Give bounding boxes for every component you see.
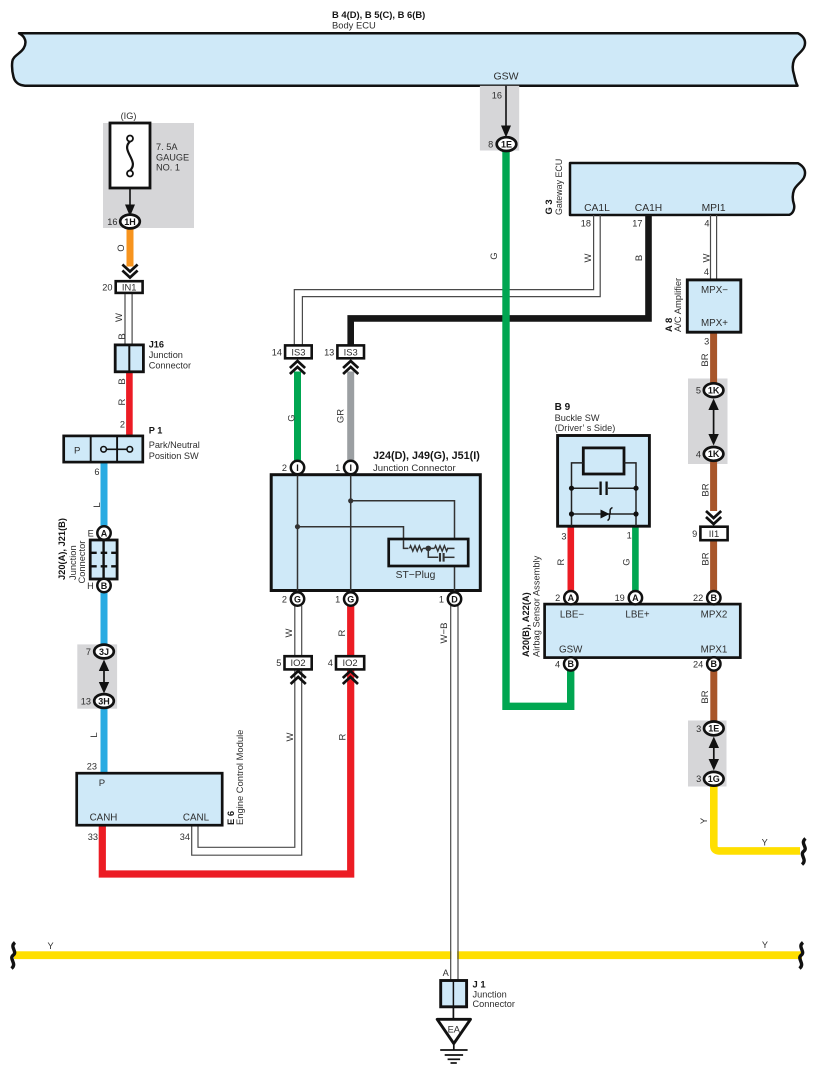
wire L 3H to E6 pin23 [101, 707, 108, 773]
svg-text:A: A [632, 593, 639, 603]
svg-text:Engine Control Module: Engine Control Module [234, 730, 245, 825]
resistor ST-Plug right [435, 546, 448, 551]
svg-text:J 1: J 1 [473, 978, 486, 989]
svg-text:IO2: IO2 [343, 657, 358, 668]
chevron IS3 13 [343, 361, 358, 374]
svg-text:W−B: W−B [439, 623, 450, 644]
connector ring G1 [335, 592, 357, 605]
svg-text:A: A [443, 968, 450, 978]
wire BR MPX+ to 1K [710, 332, 717, 384]
wire BR MPX1 pin24 to 1E [710, 670, 717, 723]
svg-text:6: 6 [94, 467, 99, 477]
wire internal I1 to D [348, 498, 454, 592]
svg-text:MPX+: MPX+ [701, 318, 728, 329]
svg-text:R: R [117, 398, 128, 405]
wire internal I2-G2 [297, 475, 299, 593]
arrow 1K-1K [708, 399, 718, 446]
svg-text:P 1: P 1 [149, 426, 163, 436]
svg-text:1: 1 [335, 463, 340, 473]
ground EA [437, 1019, 470, 1063]
svg-text:22: 22 [693, 593, 703, 603]
svg-text:1H: 1H [124, 217, 136, 227]
svg-text:4: 4 [704, 219, 709, 229]
svg-text:Connector: Connector [149, 360, 191, 370]
connector ring B pin22 [693, 591, 721, 604]
svg-text:Airbag Sensor Assembly: Airbag Sensor Assembly [531, 555, 541, 657]
svg-text:J20(A), J21(B): J20(A), J21(B) [57, 518, 67, 580]
shading GSW drop [480, 86, 519, 151]
connector ring I2 [282, 461, 304, 474]
svg-text:2: 2 [120, 420, 125, 430]
svg-text:E: E [88, 528, 94, 538]
shading 1K-1K [688, 379, 728, 465]
svg-text:G: G [347, 594, 354, 604]
svg-text:3: 3 [696, 774, 701, 784]
svg-text:13: 13 [324, 347, 334, 357]
svg-text:B: B [634, 255, 645, 261]
svg-text:A20(B), A22(A): A20(B), A22(A) [521, 592, 531, 657]
svg-text:23: 23 [87, 762, 97, 772]
svg-text:IO2: IO2 [291, 657, 306, 668]
wire W CANL loop to IO2-5 [192, 606, 302, 855]
connector ring A pin19 [615, 591, 643, 604]
arrow 1E-1G [709, 737, 719, 771]
svg-text:B 4(D), B 5(C), B 6(B): B 4(D), B 5(C), B 6(B) [332, 9, 425, 20]
svg-text:5: 5 [276, 658, 281, 668]
chevron orange to IN1 [122, 265, 137, 278]
svg-text:4: 4 [704, 267, 709, 277]
svg-text:7: 7 [86, 647, 91, 657]
wire B CA1H to IS3 [351, 215, 649, 346]
connector II1 [692, 527, 727, 541]
svg-text:I: I [296, 463, 299, 473]
connector ring A J20 [88, 526, 111, 539]
svg-text:BR: BR [700, 353, 711, 366]
svg-text:G: G [489, 252, 500, 259]
wire internal I1-G1 [350, 475, 352, 593]
svg-text:G: G [286, 414, 297, 421]
svg-text:1G: 1G [708, 774, 720, 784]
wire G GSW long (1E to airbag GSW) [506, 151, 571, 706]
wire internal B9 [572, 463, 637, 526]
svg-text:Connector: Connector [77, 541, 87, 584]
svg-text:D: D [451, 594, 458, 604]
svg-text:3J: 3J [99, 647, 109, 657]
junction connector J1 [441, 981, 467, 1007]
ECU box E6 Engine Control Module [77, 773, 223, 825]
svg-text:LBE−: LBE− [560, 609, 585, 620]
svg-text:5: 5 [696, 386, 701, 396]
amplifier box A8 A/C Amplifier [687, 280, 741, 332]
switch P1 Park/Neutral Position SW [64, 436, 143, 462]
wire internal I2 to ST-Plug [295, 524, 404, 540]
svg-text:4: 4 [696, 449, 701, 459]
connector IN1 [102, 281, 142, 293]
svg-text:P: P [99, 778, 105, 789]
svg-text:R: R [556, 558, 567, 565]
svg-text:MPX1: MPX1 [701, 644, 728, 655]
connector 1H [107, 215, 140, 229]
svg-text:W: W [583, 253, 594, 262]
svg-text:1E: 1E [708, 724, 719, 734]
wire W MPI1 to MPX- [711, 215, 717, 280]
connector 1G 3 [696, 772, 724, 786]
svg-text:Junction: Junction [149, 350, 183, 360]
wire L junction B to 3J [101, 591, 108, 646]
connector ring B pin24 [693, 657, 721, 670]
svg-text:W: W [285, 732, 296, 741]
svg-text:GSW: GSW [559, 644, 583, 655]
svg-text:J16: J16 [149, 339, 164, 349]
tear mark bottom-left [12, 943, 16, 969]
ECU box B Body ECU [12, 33, 805, 85]
svg-text:16: 16 [492, 90, 502, 100]
connector 3J [86, 645, 114, 659]
svg-text:R: R [337, 733, 348, 740]
shading 3J-3H [77, 644, 117, 708]
shading fuse block [103, 123, 194, 228]
svg-text:Body ECU: Body ECU [332, 20, 376, 31]
svg-text:CANL: CANL [183, 812, 210, 823]
svg-text:Junction Connector: Junction Connector [373, 463, 456, 474]
svg-text:3: 3 [561, 531, 566, 541]
svg-text:3H: 3H [98, 696, 110, 706]
switch B9 Buckle SW [558, 436, 650, 527]
svg-text:(IG): (IG) [121, 111, 137, 121]
svg-text:MPI1: MPI1 [702, 203, 726, 214]
connector ring D1 [439, 592, 461, 605]
svg-text:17: 17 [632, 219, 642, 229]
svg-text:GAUGE: GAUGE [156, 153, 189, 163]
svg-text:Position SW: Position SW [149, 451, 199, 461]
wire internal ST-Plug leads [404, 540, 455, 557]
svg-text:IS3: IS3 [291, 346, 305, 357]
switch body B9 [583, 448, 624, 474]
wire BR II1 to MPX2 pin22 [710, 540, 717, 592]
svg-text:2: 2 [282, 594, 287, 604]
svg-text:B: B [101, 581, 108, 591]
svg-text:9: 9 [692, 529, 697, 539]
wire R buckle to airbag pin2 [567, 526, 574, 592]
chevron IO2 5 [291, 671, 306, 684]
svg-text:B 9: B 9 [555, 402, 571, 413]
svg-text:B: B [711, 593, 718, 603]
node ST-Plug junction [426, 546, 432, 552]
wire W-B junction D to J1 ground [451, 606, 458, 981]
svg-text:18: 18 [581, 219, 591, 229]
svg-text:B: B [117, 378, 128, 384]
wire R J16 to P1 [126, 372, 133, 436]
wire L P1 to junction A [101, 462, 108, 527]
connector 3H [81, 694, 114, 708]
svg-text:EA: EA [448, 1025, 461, 1035]
wire R CANH loop to IO2-4 [102, 606, 350, 874]
svg-text:1: 1 [627, 531, 632, 541]
svg-text:3: 3 [704, 336, 709, 346]
svg-text:7. 5A: 7. 5A [156, 142, 178, 152]
tear mark bottom-right [800, 943, 804, 969]
connector IS3 13 [324, 345, 364, 358]
connector ring I1 [335, 461, 357, 474]
svg-text:O: O [116, 244, 127, 251]
diode zener B9 [601, 508, 613, 521]
svg-text:Buckle SW: Buckle SW [555, 413, 600, 423]
ECU box G3 Gateway ECU [570, 163, 805, 215]
wire O fuse to IN1 [127, 229, 134, 267]
capacitor ST-Plug [440, 553, 444, 562]
connector ring B J20 [87, 579, 111, 592]
svg-text:A/C Amplifier: A/C Amplifier [672, 278, 683, 332]
svg-text:Y: Y [48, 941, 54, 951]
connector 1E GSW [488, 137, 516, 151]
wire Y 1G to tear [714, 785, 800, 851]
junction connector J16 [115, 345, 143, 372]
svg-text:A: A [101, 528, 108, 538]
svg-text:G: G [621, 558, 632, 565]
svg-text:GSW: GSW [493, 70, 518, 82]
connector ring B pin4 [555, 657, 577, 670]
svg-text:Park/Neutral: Park/Neutral [149, 440, 200, 450]
svg-text:LBE+: LBE+ [625, 609, 650, 620]
svg-text:BR: BR [700, 552, 711, 565]
svg-text:L: L [92, 502, 103, 507]
resistor ST-Plug left [410, 546, 423, 551]
svg-text:G 3: G 3 [543, 199, 554, 214]
connector IO2 5 [276, 656, 311, 669]
svg-text:ST−Plug: ST−Plug [396, 570, 436, 581]
capacitor B9 [601, 482, 607, 496]
svg-text:34: 34 [180, 832, 190, 842]
svg-text:1K: 1K [708, 386, 720, 396]
connector ring A pin2 [555, 591, 577, 604]
fuse GAUGE NO.1 [110, 123, 150, 217]
svg-text:4: 4 [328, 658, 333, 668]
svg-text:W: W [114, 313, 125, 322]
yellow bus bottom [14, 951, 802, 959]
svg-text:CANH: CANH [90, 812, 118, 823]
svg-text:J24(D), J49(G), J51(I): J24(D), J49(G), J51(I) [373, 450, 480, 462]
svg-text:19: 19 [615, 593, 625, 603]
svg-text:Y: Y [699, 817, 710, 824]
svg-text:3: 3 [696, 724, 701, 734]
svg-text:IS3: IS3 [344, 346, 358, 357]
svg-text:4: 4 [555, 659, 560, 669]
junction connector J24 J49 J51 box [271, 475, 480, 591]
connector ring G2 [282, 592, 304, 605]
svg-text:I: I [349, 463, 352, 473]
svg-text:BR: BR [700, 483, 711, 496]
node B9 right cap [633, 486, 638, 517]
wire G buckle to airbag pin19 [632, 526, 639, 592]
svg-text:B: B [567, 659, 574, 669]
ECU box A20 A22 Airbag Sensor Assembly [545, 604, 741, 658]
svg-text:Y: Y [762, 838, 768, 848]
svg-text:IN1: IN1 [122, 281, 137, 292]
svg-text:GR: GR [335, 409, 346, 423]
svg-text:14: 14 [272, 347, 282, 357]
wire GR IS3 to junction I1 [347, 372, 354, 463]
svg-text:(Driver’ s Side): (Driver’ s Side) [555, 423, 616, 433]
svg-text:II1: II1 [709, 528, 719, 539]
svg-text:13: 13 [81, 696, 91, 706]
svg-text:16: 16 [107, 217, 117, 227]
node B9 left cap [569, 486, 574, 517]
svg-text:G: G [294, 594, 301, 604]
wire J1 to ground [452, 1007, 454, 1020]
chevron II1 [706, 511, 721, 524]
svg-text:33: 33 [88, 832, 98, 842]
connector IS3 14 [272, 345, 312, 358]
chevron IO2 4 [343, 671, 358, 684]
connector IO2 4 [328, 656, 364, 669]
svg-text:H: H [87, 581, 94, 591]
wire GSW pin16 arrow [501, 86, 511, 138]
svg-text:Gateway ECU: Gateway ECU [554, 159, 564, 215]
connector 1K 4 [696, 447, 724, 461]
wire G IS3 to junction I2 [294, 372, 301, 463]
svg-text:1: 1 [335, 594, 340, 604]
connector 1E 3 [696, 722, 724, 736]
svg-text:1: 1 [439, 594, 444, 604]
ST-Plug box [389, 539, 469, 566]
svg-text:W: W [284, 628, 295, 637]
svg-text:MPX−: MPX− [701, 285, 728, 296]
junction connector J20 J21 grid [90, 540, 117, 579]
svg-text:1K: 1K [708, 449, 720, 459]
svg-text:L: L [89, 732, 100, 737]
svg-text:NO. 1: NO. 1 [156, 163, 180, 173]
svg-text:20: 20 [102, 282, 112, 292]
svg-text:B: B [117, 333, 128, 339]
svg-text:Y: Y [762, 940, 768, 950]
svg-text:8: 8 [488, 140, 493, 150]
svg-text:2: 2 [282, 463, 287, 473]
svg-text:CA1H: CA1H [635, 203, 662, 214]
connector 1K 5 [696, 383, 724, 397]
svg-text:B: B [711, 659, 718, 669]
svg-text:24: 24 [693, 659, 703, 669]
wire W CA1L to IS3 [294, 215, 600, 346]
svg-text:W: W [701, 253, 712, 262]
wire W-B IN1 to J16 [125, 293, 132, 345]
svg-text:2: 2 [555, 593, 560, 603]
wire BR 1K to II1 [710, 460, 717, 511]
svg-text:R: R [337, 629, 348, 636]
svg-text:Connector: Connector [473, 999, 515, 1009]
svg-text:BR: BR [700, 690, 711, 703]
svg-text:MPX2: MPX2 [701, 609, 728, 620]
svg-text:CA1L: CA1L [584, 203, 610, 214]
arrow 3J-3H [99, 660, 109, 694]
svg-text:1E: 1E [501, 139, 512, 149]
chevron IS3 14 [290, 361, 305, 374]
shading 1E-1G [688, 721, 727, 787]
svg-text:A: A [568, 593, 575, 603]
svg-text:P: P [74, 445, 80, 456]
tear mark wire Y right [802, 839, 806, 865]
